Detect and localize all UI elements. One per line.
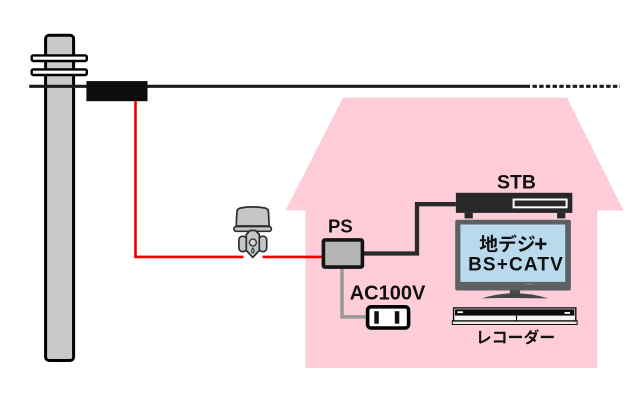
- svg-text:STB: STB: [497, 171, 536, 193]
- svg-text:BS+CATV: BS+CATV: [468, 254, 564, 275]
- svg-text:AC100V: AC100V: [350, 283, 426, 305]
- svg-text:PS: PS: [328, 216, 353, 237]
